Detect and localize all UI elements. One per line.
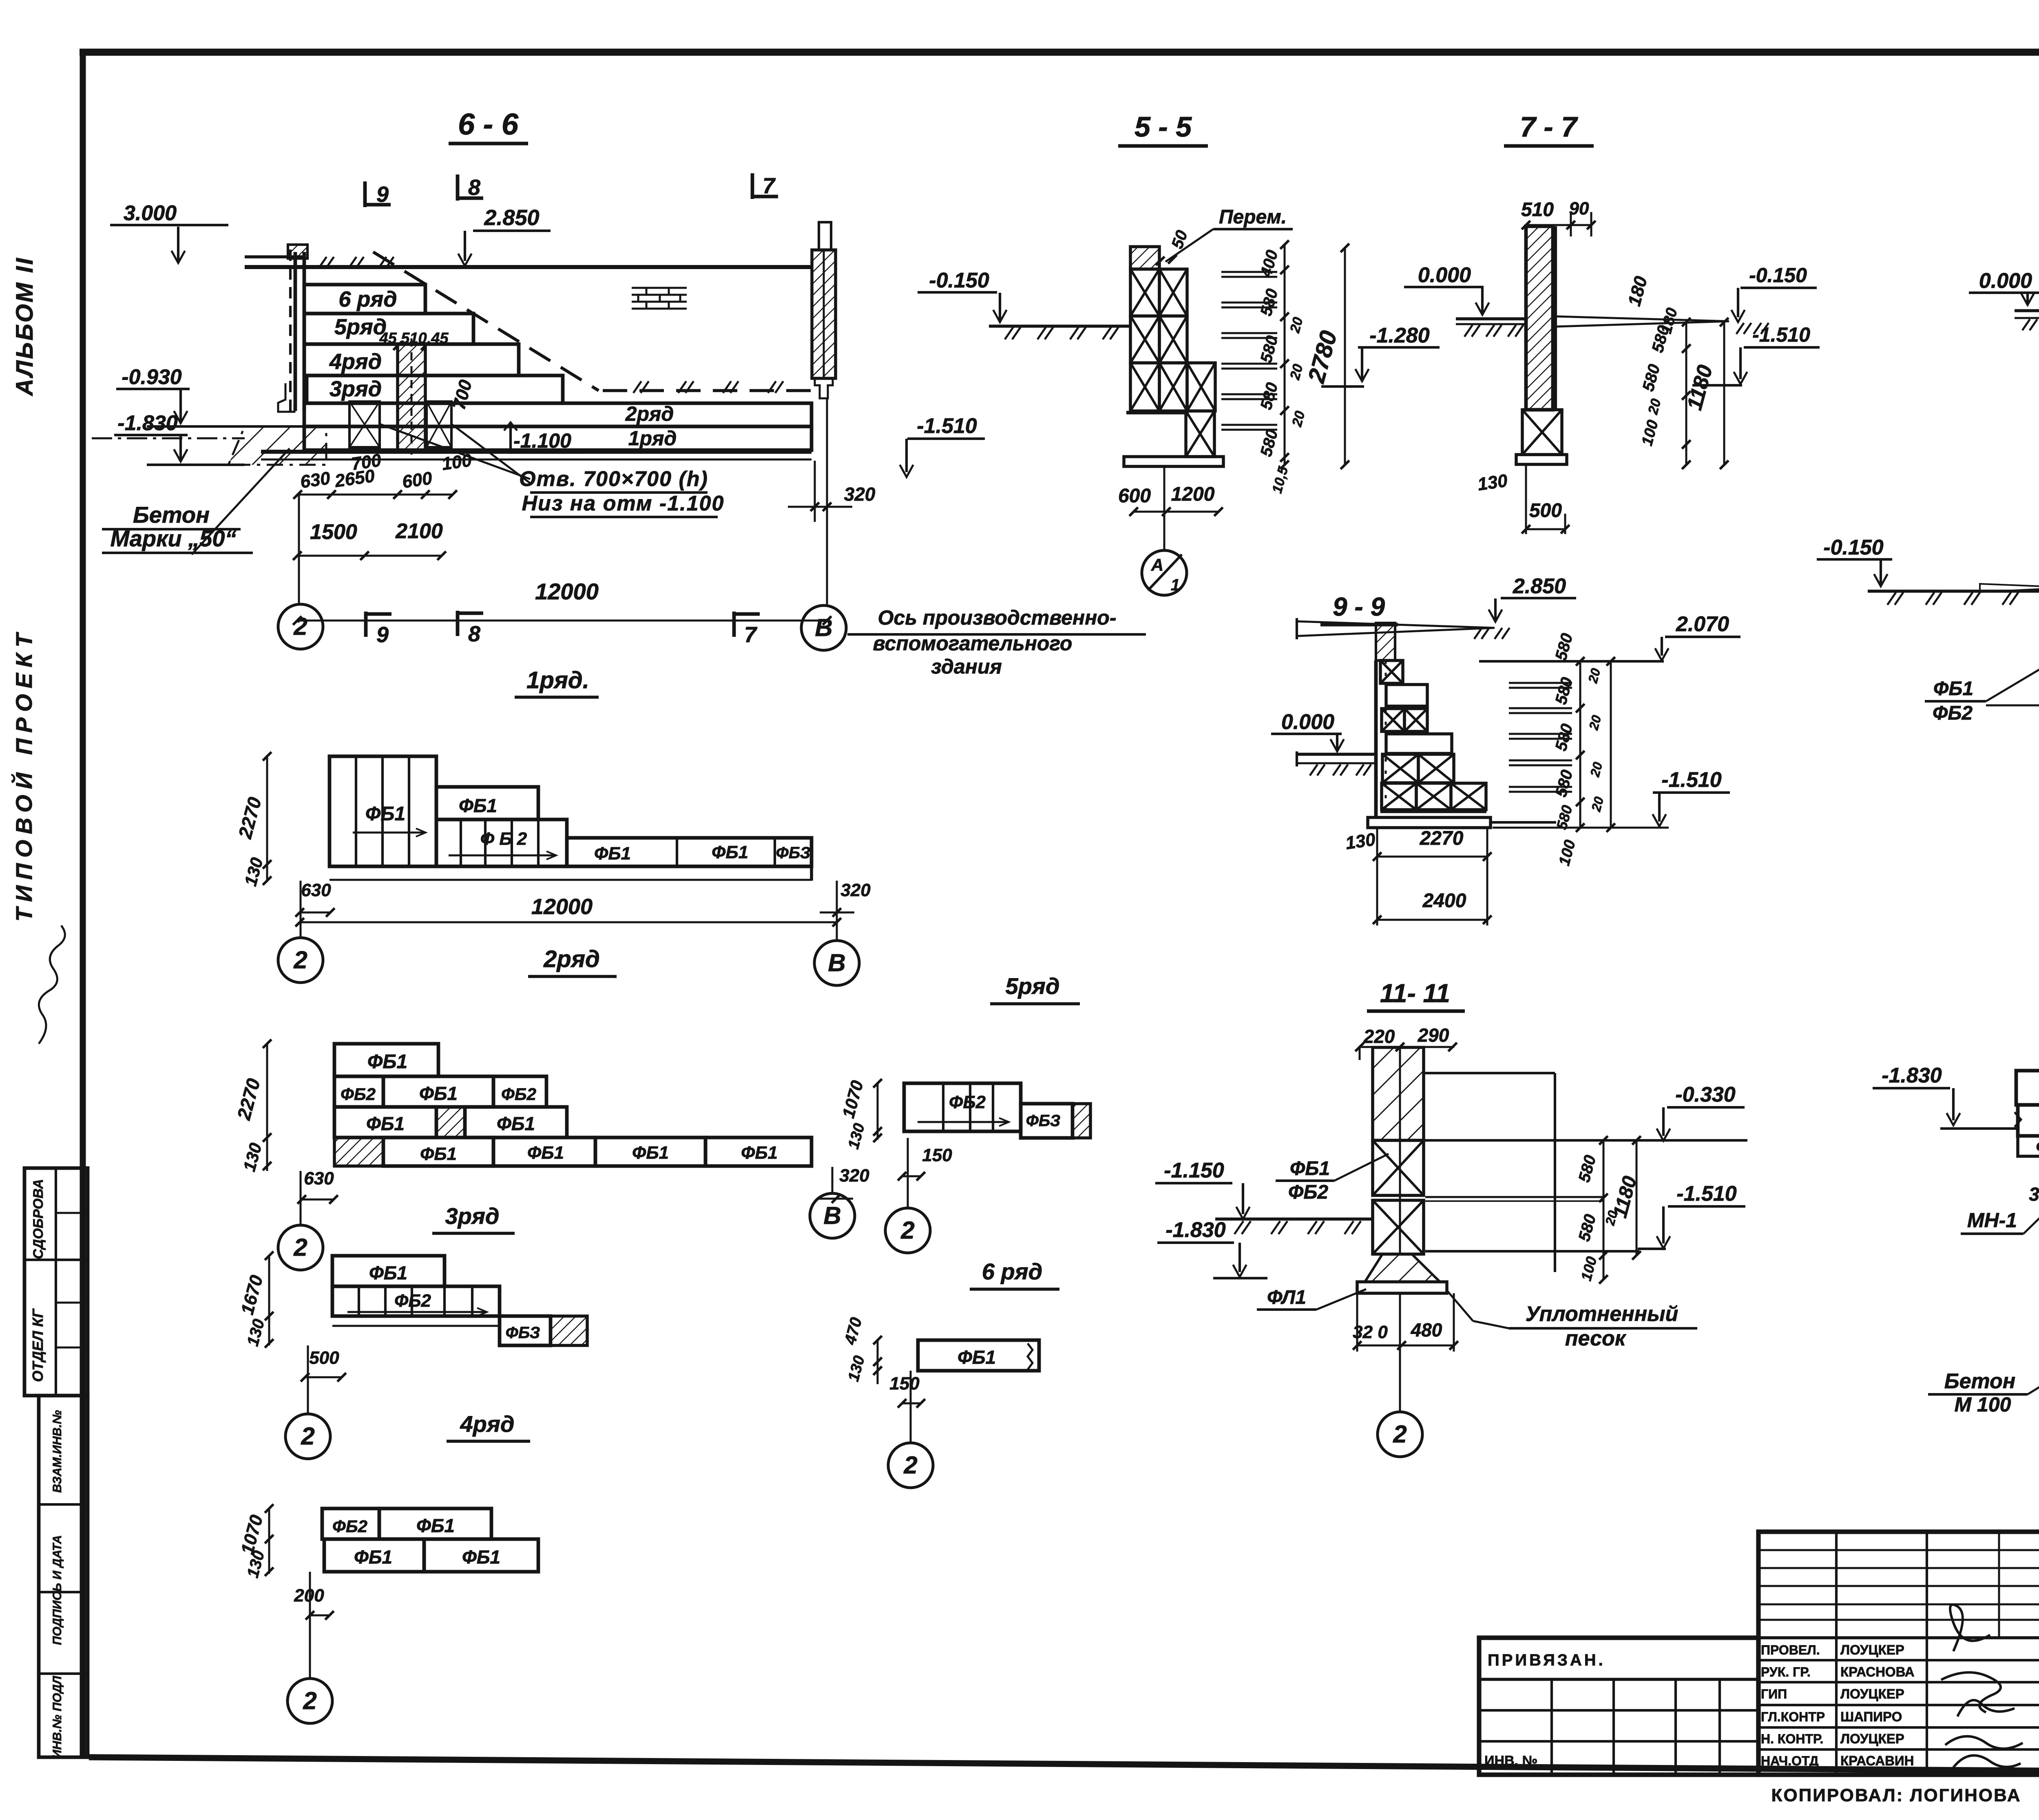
svg-text:ФБ2: ФБ2 xyxy=(949,1092,986,1112)
svg-text:ФБ1: ФБ1 xyxy=(459,795,497,816)
row4 band of 2 ryad xyxy=(334,1137,383,1166)
svg-text:ЛОУЦКЕР: ЛОУЦКЕР xyxy=(1840,1686,1904,1701)
tall block FB1 of 1 ryad xyxy=(330,756,436,866)
svg-text:130: 130 xyxy=(1344,829,1377,853)
svg-text:-1.150: -1.150 xyxy=(1164,1159,1224,1182)
svg-text:АЛЬБОМ II: АЛЬБОМ II xyxy=(11,256,38,397)
block band 2 ryad xyxy=(304,403,812,426)
svg-text:1ряд: 1ряд xyxy=(628,427,677,450)
svg-text:КРАСНОВА: КРАСНОВА xyxy=(1840,1664,1915,1679)
svg-text:ФБ1: ФБ1 xyxy=(958,1347,996,1368)
hole 700x700 right xyxy=(427,402,451,447)
svg-text:ФБ1: ФБ1 xyxy=(366,1113,405,1134)
central hatched pier xyxy=(398,344,425,450)
parapet wall of 9-9 xyxy=(1376,623,1395,660)
svg-text:6 ряд: 6 ряд xyxy=(982,1259,1043,1284)
svg-text:ФБ2: ФБ2 xyxy=(1288,1182,1328,1203)
svg-text:ФБ1: ФБ1 xyxy=(420,1144,457,1164)
svg-text:МН-1: МН-1 xyxy=(1967,1209,2017,1232)
hole 700x700 left xyxy=(349,402,380,447)
svg-text:480: 480 xyxy=(1411,1319,1442,1341)
row3 FB3 of 3 ryad xyxy=(500,1316,551,1345)
svg-text:100: 100 xyxy=(440,450,473,474)
base strip of 3 ryad xyxy=(332,1325,500,1327)
svg-text:здания: здания xyxy=(931,655,1002,678)
svg-text:320: 320 xyxy=(844,484,876,505)
ground line left of 10-10 xyxy=(1868,590,2039,593)
svg-text:2: 2 xyxy=(1393,1420,1407,1448)
grid circle A/1 xyxy=(1142,550,1187,595)
svg-text:45 510 45: 45 510 45 xyxy=(379,330,449,347)
svg-text:220: 220 xyxy=(1363,1026,1395,1047)
svg-text:ФБ1: ФБ1 xyxy=(632,1143,669,1163)
svg-text:ФБЗ: ФБЗ xyxy=(1026,1112,1061,1130)
left dim of 4 ryad xyxy=(268,1509,270,1574)
grid circle 2 of 1 ryad xyxy=(300,881,302,938)
svg-text:ЛОУЦКЕР: ЛОУЦКЕР xyxy=(1840,1731,1904,1746)
row1 of 4 ryad xyxy=(322,1509,379,1539)
svg-text:-1.510: -1.510 xyxy=(917,414,977,438)
svg-text:9: 9 xyxy=(376,182,389,207)
svg-text:ФБ2: ФБ2 xyxy=(394,1291,431,1311)
svg-text:1500: 1500 xyxy=(310,520,357,544)
margin signature script xyxy=(39,925,65,1044)
soil hatch above wall top xyxy=(319,257,327,268)
vertical dim line 5-5 xyxy=(1284,245,1286,465)
wall of 11-11 X blocks xyxy=(1373,1140,1424,1195)
excavation slope dashed xyxy=(373,252,599,391)
svg-text:5ряд: 5ряд xyxy=(1006,973,1060,999)
svg-text:ВЗАМ.ИНВ.№: ВЗАМ.ИНВ.№ xyxy=(51,1410,64,1493)
svg-text:РУК. ГР.: РУК. ГР. xyxy=(1761,1665,1811,1679)
svg-text:-0.150: -0.150 xyxy=(929,269,989,292)
block row FB1 FB2 lower xyxy=(2018,1105,2039,1136)
base plate 7-7 xyxy=(1516,455,1567,464)
base plate of 9-9 xyxy=(1368,817,1491,828)
block row 4 ryad xyxy=(304,344,519,375)
svg-text:Перем.: Перем. xyxy=(1219,206,1287,228)
svg-text:ГИП: ГИП xyxy=(1761,1687,1787,1701)
wall of 11-11 upper hatched xyxy=(1373,1047,1424,1140)
svg-text:ФБ1: ФБ1 xyxy=(416,1515,455,1536)
svg-text:320: 320 xyxy=(840,880,871,900)
svg-text:ИНВ. №: ИНВ. № xyxy=(1484,1753,1537,1769)
floor slab wedge right of 7-7 xyxy=(1556,316,1729,327)
block row FB1 FB2 upper xyxy=(2016,1071,2039,1105)
brick masonry symbol xyxy=(632,287,687,289)
steps of 9-9 xyxy=(1380,660,1403,683)
svg-text:150: 150 xyxy=(889,1374,920,1394)
svg-text:-1.510: -1.510 xyxy=(1752,323,1810,346)
svg-text:В: В xyxy=(823,1202,841,1229)
svg-text:7: 7 xyxy=(763,174,776,198)
svg-text:2.070: 2.070 xyxy=(1676,612,1729,636)
row1 of 5 ryad xyxy=(904,1083,1021,1131)
left wall line of 9-9 xyxy=(1374,660,1378,817)
svg-text:11- 11: 11- 11 xyxy=(1380,978,1450,1008)
svg-text:3ряд: 3ряд xyxy=(445,1203,500,1229)
concrete zone hatched xyxy=(228,426,326,465)
svg-text:ФБ1: ФБ1 xyxy=(419,1083,458,1104)
svg-text:ФБ1: ФБ1 xyxy=(527,1143,564,1163)
sheet frame bottom border xyxy=(89,1757,2039,1774)
row2 blocks of 2 ryad xyxy=(334,1076,383,1107)
svg-text:130: 130 xyxy=(1476,470,1509,495)
svg-text:В: В xyxy=(815,614,832,641)
svg-text:ФБ2: ФБ2 xyxy=(501,1084,536,1104)
grid circle V of 2 ryad xyxy=(832,1167,834,1193)
svg-text:6 - 6: 6 - 6 xyxy=(458,107,519,141)
left dim of 3 ryad xyxy=(268,1256,270,1345)
svg-text:8: 8 xyxy=(468,622,480,646)
svg-text:ФБ1: ФБ1 xyxy=(462,1546,500,1568)
svg-text:ФБ1: ФБ1 xyxy=(741,1143,778,1163)
floor line left of 9-9 xyxy=(1297,753,1376,756)
svg-text:2ряд: 2ряд xyxy=(625,402,674,425)
svg-text:9 - 9: 9 - 9 xyxy=(1333,592,1385,621)
svg-text:Уплотненный: Уплотненный xyxy=(1526,1302,1679,1326)
svg-text:ГЛ.КОНТР: ГЛ.КОНТР xyxy=(1761,1710,1825,1724)
svg-text:6 ряд: 6 ряд xyxy=(338,287,397,311)
svg-text:ПРИВЯЗАН.: ПРИВЯЗАН. xyxy=(1488,1651,1606,1669)
svg-text:НАЧ.ОТД: НАЧ.ОТД xyxy=(1761,1754,1819,1768)
svg-text:-1.280: -1.280 xyxy=(1369,324,1430,347)
svg-text:ФБ1: ФБ1 xyxy=(365,803,405,825)
svg-text:8: 8 xyxy=(468,175,480,200)
svg-text:СДОБРОВА: СДОБРОВА xyxy=(31,1179,46,1259)
svg-text:12000: 12000 xyxy=(535,579,599,604)
row2 FB3 of 5 ryad xyxy=(1021,1104,1073,1138)
svg-text:-1.830: -1.830 xyxy=(117,411,178,435)
svg-text:ФБЗ: ФБЗ xyxy=(776,844,811,862)
svg-text:ОТДЕЛ КГ: ОТДЕЛ КГ xyxy=(29,1308,46,1382)
grid circle V of section 6-6 xyxy=(801,605,846,650)
svg-text:1200: 1200 xyxy=(1171,484,1215,505)
row1 FB1 of 3 ryad xyxy=(332,1256,445,1286)
grid circle 2 of 5 ryad xyxy=(907,1138,909,1208)
left dim of 2 ryad xyxy=(266,1044,268,1171)
svg-text:-1.510: -1.510 xyxy=(1661,768,1722,792)
svg-text:30°: 30° xyxy=(2029,1184,2039,1205)
row1 FB1 of 2 ryad xyxy=(334,1044,438,1076)
svg-text:510: 510 xyxy=(1521,199,1554,221)
cut mark 9 top xyxy=(363,181,367,207)
svg-text:ФБ1: ФБ1 xyxy=(594,844,631,864)
svg-text:1ряд.: 1ряд. xyxy=(526,667,589,694)
svg-text:2: 2 xyxy=(301,1422,314,1450)
left dim of 6 ryad xyxy=(877,1340,879,1384)
svg-text:2ряд: 2ряд xyxy=(543,946,600,972)
hatched cap block 5-5 xyxy=(1130,247,1159,269)
note uplotnenny pesok xyxy=(1447,1290,1473,1321)
svg-text:вспомогательного: вспомогательного xyxy=(873,632,1073,655)
svg-text:Отв. 700×700 (h): Отв. 700×700 (h) xyxy=(519,467,708,491)
ground line left of 5-5 xyxy=(989,325,1130,328)
grid circle 2 of 2 ryad xyxy=(300,1171,302,1225)
svg-text:600: 600 xyxy=(401,468,433,492)
base strip of 9-9 xyxy=(1380,810,1486,813)
svg-text:ФБ1: ФБ1 xyxy=(369,1262,407,1283)
svg-text:ФБ1: ФБ1 xyxy=(354,1546,392,1568)
svg-text:Бетон: Бетон xyxy=(133,502,210,528)
block FB1 of 6 ryad xyxy=(918,1340,1039,1371)
base strip of 2 ryad xyxy=(334,1164,812,1168)
svg-text:ФБ1: ФБ1 xyxy=(1933,678,1973,700)
svg-text:ФБ1: ФБ1 xyxy=(712,842,748,862)
lower X block 5-5 xyxy=(1186,411,1214,457)
svg-text:2270: 2270 xyxy=(1420,828,1464,849)
low band FB1 FB1 FB3 of 1 ryad xyxy=(567,838,812,866)
svg-text:ФБ2: ФБ2 xyxy=(332,1517,367,1536)
footing trapezoid of 11-11 xyxy=(1365,1254,1440,1282)
svg-text:7 - 7: 7 - 7 xyxy=(1520,111,1578,143)
axis line to circle A1 xyxy=(1163,466,1165,551)
svg-text:-1.830: -1.830 xyxy=(1882,1064,1942,1087)
leader beton xyxy=(192,448,290,554)
privyazan block xyxy=(1479,1638,1758,1775)
svg-text:песок: песок xyxy=(1565,1327,1627,1350)
svg-text:ФБ2: ФБ2 xyxy=(341,1084,376,1104)
svg-text:2100: 2100 xyxy=(395,519,443,543)
svg-text:0.000: 0.000 xyxy=(1979,269,2032,293)
wall footing notch left xyxy=(278,383,294,412)
sheet frame left border xyxy=(80,50,86,1758)
floor ledges right of 9-9 xyxy=(1509,682,1572,684)
svg-text:2: 2 xyxy=(303,1687,316,1714)
svg-text:290: 290 xyxy=(1418,1025,1449,1046)
floor line left of 8-8 xyxy=(2015,309,2039,312)
svg-text:-0.150: -0.150 xyxy=(1823,536,1884,559)
svg-text:500: 500 xyxy=(1529,500,1562,521)
svg-text:ПРОВЕЛ.: ПРОВЕЛ. xyxy=(1761,1643,1820,1657)
svg-text:90: 90 xyxy=(1569,199,1589,219)
block row 6 ryad xyxy=(304,285,425,314)
svg-text:1: 1 xyxy=(1171,576,1180,594)
svg-text:-0.930: -0.930 xyxy=(122,365,182,389)
svg-text:КОПИРОВАЛ: ЛОГИНОВА: КОПИРОВАЛ: ЛОГИНОВА xyxy=(1771,1785,2021,1805)
svg-text:150: 150 xyxy=(922,1145,952,1165)
svg-text:2.850: 2.850 xyxy=(1513,574,1566,598)
right wall at axis V xyxy=(812,250,836,378)
svg-text:Ось производственно-: Ось производственно- xyxy=(878,606,1117,629)
row2 of 4 ryad xyxy=(324,1539,424,1572)
wall of 7-7 hatched xyxy=(1526,226,1553,410)
base plate of 11-11 xyxy=(1357,1282,1447,1293)
grid circle 2 of 6 ryad xyxy=(910,1371,912,1442)
svg-text:А: А xyxy=(1151,555,1163,574)
svg-text:ФБ2: ФБ2 xyxy=(1933,702,1973,724)
svg-text:2: 2 xyxy=(293,613,307,640)
svg-text:4ряд: 4ряд xyxy=(460,1411,515,1437)
svg-text:2.850: 2.850 xyxy=(484,205,539,230)
svg-text:0.000: 0.000 xyxy=(1418,263,1471,287)
block FL2 left xyxy=(2018,1136,2039,1156)
cut mark 8 bottom xyxy=(456,611,460,636)
svg-text:ИНВ.№ ПОДЛ: ИНВ.№ ПОДЛ xyxy=(51,1675,64,1758)
svg-text:-1.830: -1.830 xyxy=(1165,1218,1226,1242)
svg-text:Бетон: Бетон xyxy=(1944,1369,2015,1393)
svg-text:7: 7 xyxy=(744,623,758,647)
svg-text:2: 2 xyxy=(293,946,307,974)
base strip of 1 ryad xyxy=(330,865,812,868)
svg-text:3ряд: 3ряд xyxy=(330,377,382,401)
svg-text:ПОДПИСЬ И ДАТА: ПОДПИСЬ И ДАТА xyxy=(51,1535,64,1645)
top line right of 11-11 xyxy=(1424,1072,1555,1074)
svg-text:2400: 2400 xyxy=(1422,890,1466,912)
top slab of 9-9 xyxy=(1297,621,1495,636)
cut mark 7 bottom xyxy=(732,612,736,637)
block row 5 ryad xyxy=(304,314,473,344)
svg-text:М 100: М 100 xyxy=(1955,1393,2011,1416)
svg-text:В: В xyxy=(828,949,845,976)
foundation bottom lines xyxy=(261,450,812,454)
svg-text:ФБ1: ФБ1 xyxy=(1290,1158,1330,1179)
svg-text:0.000: 0.000 xyxy=(1281,710,1334,734)
svg-text:Низ на отм -1.100: Низ на отм -1.100 xyxy=(522,492,725,515)
block stack 5-5 X blocks xyxy=(1130,269,1159,316)
mid level line of 11-11 xyxy=(1425,1196,1603,1198)
margin stamp strip lower xyxy=(39,1396,88,1757)
left dim of 5 ryad xyxy=(877,1083,879,1140)
bottom line of 11-11 xyxy=(1425,1250,1639,1252)
vertical dim 9-9 xyxy=(1579,661,1581,828)
svg-text:9: 9 xyxy=(376,623,389,647)
signatures script xyxy=(1941,1605,2023,1767)
mid block FB1 of 1 ryad xyxy=(436,787,538,819)
svg-text:ЛОУЦКЕР: ЛОУЦКЕР xyxy=(1840,1642,1904,1657)
X block below wall 7-7 xyxy=(1522,410,1562,455)
row3 blocks of 2 ryad xyxy=(334,1107,436,1137)
svg-text:-0.150: -0.150 xyxy=(1749,264,1807,287)
svg-text:ФЛ1: ФЛ1 xyxy=(1267,1287,1306,1308)
svg-text:4ряд: 4ряд xyxy=(329,349,382,374)
left wall of section 6-6 xyxy=(289,250,292,413)
signature table xyxy=(1758,1532,2039,1775)
margin stamp table upper xyxy=(24,1168,88,1396)
svg-text:-0.330: -0.330 xyxy=(1675,1083,1736,1107)
cut mark 7 top xyxy=(751,173,754,199)
svg-text:5ряд: 5ряд xyxy=(334,315,387,339)
svg-text:-1.510: -1.510 xyxy=(1676,1182,1737,1206)
svg-text:ТИПОВОЙ ПРОЕКТ: ТИПОВОЙ ПРОЕКТ xyxy=(11,628,37,922)
base plate 5-5 xyxy=(1124,457,1223,466)
svg-text:2: 2 xyxy=(903,1451,917,1479)
svg-text:630: 630 xyxy=(304,1168,334,1188)
step base line 5-5 xyxy=(1126,411,1189,415)
leader to hole note xyxy=(380,424,530,479)
svg-text:Н. КОНТР.: Н. КОНТР. xyxy=(1761,1732,1823,1746)
slab wedge left 10-10 xyxy=(1980,584,2039,592)
floor ledges right of 5-5 xyxy=(1221,271,1277,273)
svg-text:630: 630 xyxy=(301,880,331,900)
cut mark 9 bottom xyxy=(364,612,368,637)
svg-text:ФБ1: ФБ1 xyxy=(497,1113,535,1134)
svg-text:ШАПИРО: ШАПИРО xyxy=(1840,1709,1902,1724)
grid circle 2 of 3 ryad xyxy=(307,1345,309,1414)
left dim of 1 ryad xyxy=(266,756,268,881)
svg-text:5 - 5: 5 - 5 xyxy=(1134,111,1192,143)
grid circle 2 of 4 ryad xyxy=(309,1572,311,1679)
svg-text:600: 600 xyxy=(1118,485,1151,507)
svg-text:Ф Б 2: Ф Б 2 xyxy=(480,829,527,849)
svg-text:3.000: 3.000 xyxy=(124,201,177,225)
svg-text:630: 630 xyxy=(299,468,332,492)
row2 of 3 ryad xyxy=(332,1286,500,1316)
ground line left of 11-11 xyxy=(1215,1217,1373,1221)
vertical dims of 11-11 xyxy=(1603,1140,1605,1279)
block row 3 ryad xyxy=(307,375,563,403)
svg-text:2: 2 xyxy=(900,1217,914,1244)
sheet frame top border xyxy=(80,49,2039,56)
svg-text:ФБ1: ФБ1 xyxy=(367,1051,407,1073)
block band 1 ryad xyxy=(304,426,812,450)
svg-text:2: 2 xyxy=(293,1234,307,1261)
grid circle V of 1 ryad xyxy=(836,881,838,941)
mid block FB2 of 1 ryad xyxy=(436,819,567,866)
axis to circle 2 of 11-11 xyxy=(1399,1293,1401,1411)
ground line left of 7-7 xyxy=(1456,317,1526,320)
cut mark 8 top xyxy=(456,174,460,201)
svg-text:ФЛ.2: ФЛ.2 xyxy=(2036,1138,2039,1156)
dash-dot axis line left xyxy=(92,437,245,440)
svg-text:КРАСАВИН: КРАСАВИН xyxy=(1840,1753,1914,1768)
svg-text:ФБЗ: ФБЗ xyxy=(506,1324,540,1342)
svg-text:320: 320 xyxy=(839,1166,869,1186)
svg-text:500: 500 xyxy=(309,1348,339,1368)
grid circle 2 of 11-11 xyxy=(1378,1412,1422,1457)
svg-text:12000: 12000 xyxy=(531,895,593,919)
grid circle 2 of section 6-6 xyxy=(298,495,300,605)
svg-text:-1.100: -1.100 xyxy=(513,429,571,452)
retaining wall top line xyxy=(245,265,812,269)
